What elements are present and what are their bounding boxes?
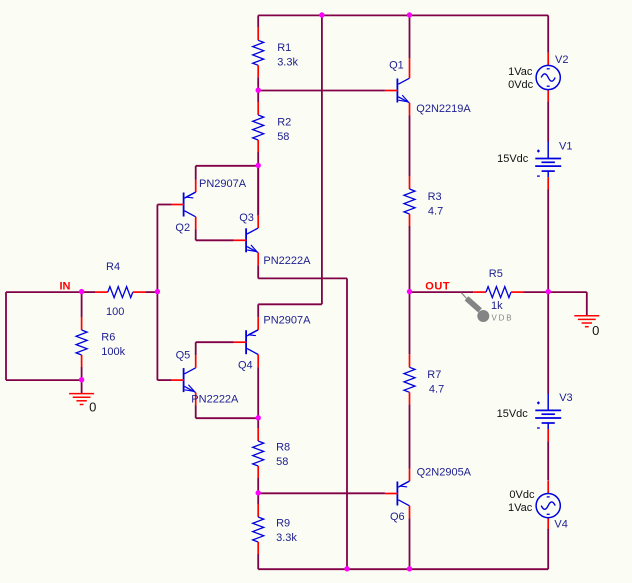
svg-text:15Vdc: 15Vdc [497, 153, 529, 165]
svg-text:R9: R9 [276, 518, 290, 530]
svg-text:0: 0 [592, 323, 599, 338]
svg-text:1Vac: 1Vac [508, 502, 533, 514]
svg-text:PN2222A: PN2222A [263, 255, 311, 267]
svg-text:Q2: Q2 [175, 222, 190, 234]
svg-text:Q3: Q3 [239, 212, 254, 224]
svg-text:58: 58 [277, 131, 289, 143]
svg-text:58: 58 [276, 456, 288, 468]
svg-text:0: 0 [89, 400, 96, 415]
svg-text:3.3k: 3.3k [277, 57, 298, 69]
svg-text:4.7: 4.7 [428, 205, 443, 217]
svg-text:PN2222A: PN2222A [191, 394, 239, 406]
svg-text:R3: R3 [428, 191, 442, 203]
svg-text:V1: V1 [559, 140, 572, 152]
svg-text:R8: R8 [276, 442, 290, 454]
svg-text:OUT: OUT [425, 281, 450, 293]
svg-text:15Vdc: 15Vdc [497, 408, 529, 420]
svg-text:Q2N2905A: Q2N2905A [417, 467, 472, 479]
svg-text:V2: V2 [555, 54, 568, 66]
svg-text:Q6: Q6 [390, 511, 405, 523]
svg-text:IN: IN [60, 281, 71, 293]
svg-text:PN2907A: PN2907A [199, 178, 247, 190]
svg-text:4.7: 4.7 [429, 383, 444, 395]
svg-text:100k: 100k [101, 346, 125, 358]
svg-text:R5: R5 [489, 268, 503, 280]
svg-text:0Vdc: 0Vdc [508, 79, 534, 91]
svg-text:V4: V4 [554, 518, 567, 530]
svg-text:Q4: Q4 [238, 360, 253, 372]
svg-text:R6: R6 [101, 331, 115, 343]
svg-text:R4: R4 [106, 261, 120, 273]
svg-text:V3: V3 [559, 392, 572, 404]
svg-text:1k: 1k [491, 300, 503, 312]
svg-text:PN2907A: PN2907A [263, 315, 311, 327]
svg-text:Q2N2219A: Q2N2219A [416, 103, 471, 115]
svg-text:VDB: VDB [492, 314, 514, 323]
svg-text:R2: R2 [277, 117, 291, 129]
svg-text:100: 100 [106, 306, 124, 318]
svg-text:Q5: Q5 [176, 349, 191, 361]
svg-text:Q1: Q1 [389, 60, 404, 72]
svg-text:R7: R7 [427, 369, 441, 381]
svg-text:1Vac: 1Vac [508, 66, 533, 78]
svg-text:R1: R1 [277, 42, 291, 54]
svg-text:3.3k: 3.3k [276, 532, 297, 544]
svg-text:0Vdc: 0Vdc [509, 489, 535, 501]
